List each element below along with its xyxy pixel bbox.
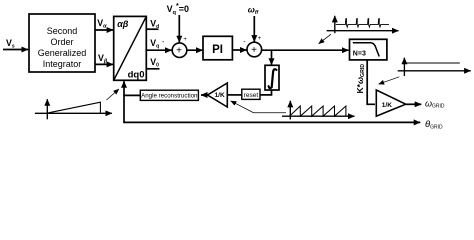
svg-text:Vd: Vd	[150, 18, 159, 30]
svg-text:Vα: Vα	[97, 18, 107, 30]
svg-text:K*ωGRID: K*ωGRID	[355, 64, 366, 94]
plot icon sawtooth	[282, 101, 355, 120]
svg-text:reset: reset	[244, 92, 259, 99]
svg-text:Vs: Vs	[6, 38, 15, 50]
svg-text:V0: V0	[150, 57, 159, 69]
callout arrow flat icon to K wire	[379, 77, 400, 84]
svg-text:αβ: αβ	[117, 19, 129, 29]
svg-text:θGRID: θGRID	[425, 119, 443, 130]
summer S2	[247, 42, 262, 57]
svg-text:1/K: 1/K	[382, 102, 392, 109]
svg-text:ωGRID: ωGRID	[425, 98, 445, 109]
svg-text:Angle reconstruction: Angle reconstruction	[141, 93, 198, 100]
svg-text:-: -	[162, 39, 165, 46]
svg-text:dq0: dq0	[128, 70, 145, 81]
wire to omega_GRID	[406, 103, 422, 105]
svg-text:Generalized: Generalized	[38, 48, 87, 58]
wire V0 stub	[146, 68, 159, 70]
wire 1/K to angle reconstruction	[201, 94, 208, 96]
integrator block	[265, 65, 279, 90]
wire Vq* down	[178, 15, 180, 42]
PI block	[203, 36, 232, 60]
callout arrow ramp to theta wire	[107, 89, 119, 100]
wire PI to S2	[232, 49, 246, 51]
svg-text:+: +	[251, 45, 257, 56]
wire theta up into dq0	[123, 81, 125, 95]
wire omega_ff down	[253, 16, 255, 42]
gain 1/K left	[208, 83, 228, 107]
wire reset to 1/K	[227, 94, 242, 96]
wire S1 to PI	[187, 49, 203, 51]
transform block alphabeta-dq0	[114, 16, 147, 80]
filter N=3 block	[350, 39, 387, 60]
plot icon omega spikes	[327, 16, 399, 33]
wire N=3 down to 1/K	[367, 60, 375, 104]
svg-text:N=3: N=3	[353, 51, 366, 58]
wire integrator to reset	[260, 90, 272, 95]
svg-text:Integrator: Integrator	[43, 59, 82, 69]
gain 1/K right	[376, 90, 405, 116]
svg-text:ωff: ωff	[248, 5, 260, 16]
svg-text:Vq*=0: Vq*=0	[167, 3, 189, 16]
wire theta feedback	[124, 95, 420, 122]
wire Vq to summer	[146, 49, 171, 51]
svg-text:-: -	[243, 39, 246, 46]
callout arrow spikes to omega wire	[319, 34, 331, 44]
reset block	[242, 89, 260, 99]
svg-text:PI: PI	[212, 44, 223, 56]
SOGI block	[29, 14, 95, 72]
svg-text:Order: Order	[50, 37, 73, 47]
angle reconstruction block	[140, 90, 198, 100]
svg-text:+: +	[258, 36, 262, 42]
svg-text:Second: Second	[47, 26, 78, 36]
wire Valpha	[95, 29, 113, 31]
svg-text:+: +	[176, 45, 182, 56]
plot icon theta ramp	[35, 99, 112, 119]
wire S2 to N=3	[262, 49, 349, 51]
svg-text:Vβ: Vβ	[98, 53, 108, 65]
svg-text:Vq: Vq	[150, 38, 159, 50]
summer S1	[172, 43, 187, 58]
svg-text:+: +	[183, 37, 187, 43]
plot icon omega_grid flat	[398, 58, 471, 76]
wire Vd stub	[146, 28, 158, 30]
callout arrow sawtooth to reset wire	[231, 101, 286, 113]
wire drop to integrator	[271, 50, 273, 65]
wire Vs input	[3, 49, 28, 51]
svg-text:1/K: 1/K	[215, 92, 225, 99]
wire Vbeta	[95, 63, 113, 65]
